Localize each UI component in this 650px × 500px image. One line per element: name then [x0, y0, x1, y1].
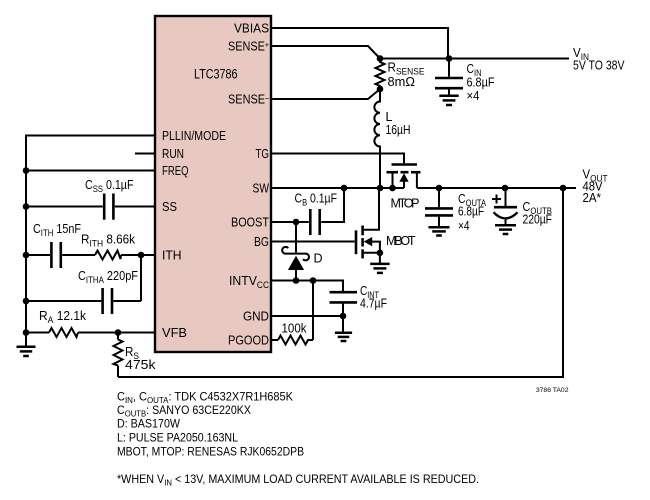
node SW/MTOP source junction [389, 185, 396, 192]
svg-text:4.7µF: 4.7µF [360, 297, 387, 311]
svg-text:SS: SS [162, 199, 177, 214]
svg-text:RITH 8.66k: RITH 8.66k [81, 233, 136, 249]
capacitor CITHA 220pF [111, 288, 114, 314]
capacitor CB 0.1uF [309, 209, 312, 235]
svg-text:CB 0.1µF: CB 0.1µF [295, 191, 338, 207]
resistor RITH 8.66k [95, 251, 121, 260]
node VFB divider junction [115, 329, 122, 336]
node VFB rail junction [23, 329, 30, 336]
svg-text:SENSE+: SENSE+ [228, 39, 269, 54]
wire VFB left [26, 332, 49, 334]
capacitor CIN [448, 59, 450, 77]
wire VBIAS to VIN rail [272, 28, 448, 58]
node 100k pullup junction [310, 277, 317, 284]
ground below COUTA [438, 217, 440, 227]
svg-text:L: L [386, 110, 393, 124]
svg-text:6.8µF: 6.8µF [467, 76, 495, 90]
wire RA to VFB pin [78, 332, 154, 334]
svg-text:BG: BG [254, 234, 269, 249]
wire BG to MBOT gate [272, 241, 355, 243]
transistor MTOP (N-MOSFET, horizontal) [387, 165, 421, 189]
svg-text:8mΩ: 8mΩ [388, 75, 416, 89]
wire SS left [26, 206, 103, 208]
diode D (Schottky BAS170W) [282, 222, 309, 281]
svg-text:ITH: ITH [162, 248, 182, 263]
svg-text:RUN: RUN [162, 146, 184, 161]
wire SENSE+ to RSENSE top [272, 46, 380, 59]
wire VOUT rail (drain side) [417, 187, 576, 189]
node BOOST/diode junction [293, 219, 300, 226]
capacitor CSS 0.1uF [103, 194, 106, 220]
capacitor CINT 4.7uF [330, 291, 358, 294]
svg-text:VBIAS: VBIAS [234, 21, 269, 36]
svg-text:*WHEN VIN < 13V, MAXIMUM LOAD: *WHEN VIN < 13V, MAXIMUM LOAD CURRENT AV… [117, 472, 479, 488]
node COUTA junction [436, 185, 443, 192]
wire TG to MTOP gate [272, 154, 404, 164]
svg-text:TG: TG [256, 146, 270, 161]
node GND/CINT junction [340, 313, 347, 320]
svg-text:CSS 0.1µF: CSS 0.1µF [85, 178, 134, 194]
node ITH rail junction [23, 252, 30, 259]
wire feedback bottom rail [118, 188, 563, 377]
wire PLLIN/MODE + left rail [26, 136, 154, 333]
svg-text:2A*: 2A* [583, 191, 602, 205]
node VIN/VBIAS junction [446, 55, 453, 62]
wire ITH left [26, 254, 50, 256]
svg-text:SW: SW [253, 181, 270, 196]
svg-text:LTC3786: LTC3786 [194, 67, 238, 82]
node CITHA rail junction [23, 298, 30, 305]
svg-text:L: PULSE PA2050.163NL: L: PULSE PA2050.163NL [117, 431, 238, 445]
wire SENSE- to RSENSE bottom [272, 89, 380, 99]
svg-text:×4: ×4 [467, 89, 480, 103]
wire VIN rail [380, 58, 569, 60]
node RSENSE bottom junction [377, 86, 384, 93]
wire RITH to ITH pin [121, 254, 154, 256]
wire RUN stub [135, 153, 154, 155]
wire SW rail (source side) [272, 187, 404, 189]
svg-text:D: BAS170W: D: BAS170W [117, 417, 181, 431]
wire GND pin [272, 315, 343, 317]
ground below MBOT [379, 253, 381, 263]
svg-text:220µF: 220µF [523, 213, 553, 227]
svg-text:6.8µF: 6.8µF [458, 205, 484, 219]
svg-text:100k: 100k [282, 322, 308, 336]
svg-text:×4: ×4 [458, 219, 470, 233]
wire CITHA branch vertical [140, 255, 142, 301]
capacitor COUTA [438, 188, 440, 207]
transistor MBOT (N-MOSFET, vertical) [356, 188, 380, 258]
resistor RS 475k [117, 333, 119, 340]
plus sign COUTB [492, 198, 501, 200]
resistor RA 12.1k [49, 328, 78, 337]
svg-text:3786 TA02: 3786 TA02 [536, 387, 569, 394]
svg-text:RA 12.1k: RA 12.1k [39, 309, 87, 325]
node RSENSE top junction [377, 55, 384, 62]
node SS rail junction [23, 203, 30, 210]
capacitor CITH 15nF [50, 242, 53, 268]
svg-text:PGOOD: PGOOD [228, 333, 269, 348]
node VOUT feedback junction [560, 185, 567, 192]
node MBOT source junction [377, 250, 384, 257]
wire 100k to INTVCC [312, 281, 314, 341]
svg-text:MBOT: MBOT [386, 234, 416, 248]
node ITH/CITHA junction [138, 252, 145, 259]
node FREQ rail junction [23, 167, 30, 174]
svg-text:PLLIN/MODE: PLLIN/MODE [162, 128, 226, 143]
wire CITHA right [113, 300, 141, 302]
wire FREQ [26, 170, 154, 172]
svg-text:VFB: VFB [162, 325, 187, 340]
op-amp U1 LTC3786 controller IC body [155, 16, 271, 352]
svg-text:MTOP: MTOP [391, 197, 420, 211]
svg-text:MBOT, MTOP: RENESAS RJK0652DPB: MBOT, MTOP: RENESAS RJK0652DPB [117, 445, 304, 459]
svg-text:CITHA 220pF: CITHA 220pF [78, 269, 138, 285]
node diode anode junction [293, 277, 300, 284]
capacitor COUTB (polarized) [505, 188, 507, 206]
svg-text:CITH 15nF: CITH 15nF [33, 222, 81, 238]
svg-text:5V TO 38V: 5V TO 38V [573, 59, 625, 73]
wire PGOOD [272, 339, 278, 341]
node SW/inductor junction [377, 185, 384, 192]
svg-text:BOOST: BOOST [231, 215, 269, 230]
svg-text:SENSE–: SENSE– [228, 92, 269, 107]
ground below CINT [342, 316, 344, 332]
svg-text:475k: 475k [125, 358, 156, 372]
wire BOOST [272, 221, 309, 223]
wire INTVCC [272, 281, 343, 292]
svg-text:GND: GND [243, 309, 269, 324]
svg-text:FREQ: FREQ [162, 163, 189, 178]
ground below COUTB [495, 224, 516, 227]
ground below CIN [448, 90, 450, 96]
resistor 100k [278, 336, 313, 345]
resistor RSENSE 8mOhm [376, 59, 385, 90]
svg-text:16µH: 16µH [386, 123, 411, 137]
node SW/CB junction [341, 185, 348, 192]
node COUTB junction [502, 185, 509, 192]
ground left rail [25, 333, 27, 347]
inductor L 16uH [374, 89, 380, 188]
svg-text:D: D [314, 252, 323, 266]
